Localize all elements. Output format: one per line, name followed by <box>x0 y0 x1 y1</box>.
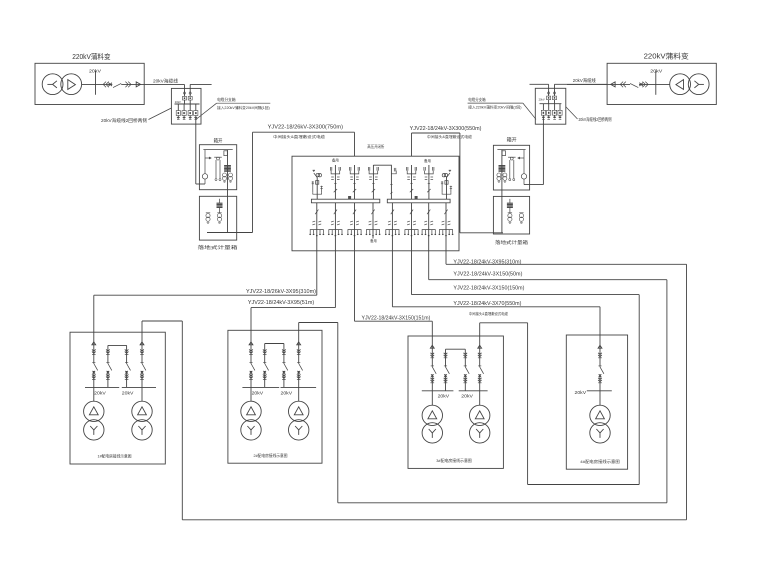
svg-text:20kV海缆线2回桥两侧: 20kV海缆线2回桥两侧 <box>101 117 148 124</box>
svg-text:YJV22-18/24kV-3X95(51m): YJV22-18/24kV-3X95(51m) <box>248 300 315 306</box>
svg-text:YJV22-18/26kV-3X300(750m): YJV22-18/26kV-3X300(750m) <box>268 124 344 130</box>
svg-text:20kV: 20kV <box>575 390 588 395</box>
svg-text:YJV22-18/24kV-3X150(150m): YJV22-18/24kV-3X150(150m) <box>453 286 524 292</box>
svg-text:备用: 备用 <box>424 158 431 163</box>
svg-text:YJV22-18/24kV-3X150(151m): YJV22-18/24kV-3X150(151m) <box>362 316 431 322</box>
svg-text:20kV海缆线: 20kV海缆线 <box>153 77 178 84</box>
svg-text:接入220kV蒲料变20kV间隔(2回): 接入220kV蒲料变20kV间隔(2回) <box>468 104 521 109</box>
svg-text:20kV: 20kV <box>281 391 294 396</box>
svg-text:2#配电房接线示意图: 2#配电房接线示意图 <box>254 453 288 458</box>
svg-text:20kV: 20kV <box>89 68 102 73</box>
svg-text:电缆分支箱: 电缆分支箱 <box>217 96 235 102</box>
svg-text:20kV海缆线2回桥两侧: 20kV海缆线2回桥两侧 <box>579 116 612 123</box>
svg-text:落地式计量箱: 落地式计量箱 <box>495 239 528 246</box>
svg-text:20kV: 20kV <box>94 391 107 396</box>
svg-text:220kV蒲料变: 220kV蒲料变 <box>644 51 689 60</box>
svg-text:20kV: 20kV <box>252 391 265 396</box>
svg-text:YJV22-18/24kV-3X300(550m): YJV22-18/24kV-3X300(550m) <box>410 126 482 132</box>
svg-text:电缆分支箱: 电缆分支箱 <box>468 96 485 102</box>
svg-text:落地式计量箱: 落地式计量箱 <box>198 244 239 251</box>
svg-text:220kV蒲料变: 220kV蒲料变 <box>72 52 110 61</box>
svg-text:YJV22-18/26kV-3X95(310m): YJV22-18/26kV-3X95(310m) <box>246 289 316 295</box>
svg-text:备用: 备用 <box>370 238 376 243</box>
svg-text:YJV22-18/24kV-3X95(310m): YJV22-18/24kV-3X95(310m) <box>453 259 521 265</box>
svg-text:箱开: 箱开 <box>214 136 223 144</box>
svg-text:中间接头&直埋敷设式电缆: 中间接头&直埋敷设式电缆 <box>469 311 508 316</box>
svg-text:20kV: 20kV <box>122 391 135 396</box>
svg-text:20kV: 20kV <box>175 100 181 104</box>
svg-text:接入220kV蒲料变20kV间隔(1回): 接入220kV蒲料变20kV间隔(1回) <box>217 105 270 110</box>
svg-text:1#配电房接线示意图: 1#配电房接线示意图 <box>98 454 132 459</box>
svg-text:高压开闭所: 高压开闭所 <box>367 144 384 149</box>
svg-text:20kV: 20kV <box>461 393 474 398</box>
svg-text:20kV: 20kV <box>539 98 545 102</box>
svg-text:20kV: 20kV <box>650 68 663 73</box>
svg-text:备用: 备用 <box>332 157 339 162</box>
svg-text:YJV22-18/24kV-3X150(50m): YJV22-18/24kV-3X150(50m) <box>453 271 522 277</box>
svg-text:箱开: 箱开 <box>507 136 517 144</box>
svg-text:YJV22-18/24kV-3X70(550m): YJV22-18/24kV-3X70(550m) <box>453 301 521 307</box>
svg-text:4#配电房接线示意图: 4#配电房接线示意图 <box>580 459 620 464</box>
svg-text:中间接头&直埋敷设式电缆: 中间接头&直埋敷设式电缆 <box>273 134 325 139</box>
svg-text:3#配电房接线示意图: 3#配电房接线示意图 <box>436 458 472 463</box>
svg-text:20kV海缆线: 20kV海缆线 <box>573 77 596 84</box>
svg-text:20kV: 20kV <box>438 393 451 398</box>
svg-text:中间接头&直埋敷设式电缆: 中间接头&直埋敷设式电缆 <box>427 134 472 139</box>
